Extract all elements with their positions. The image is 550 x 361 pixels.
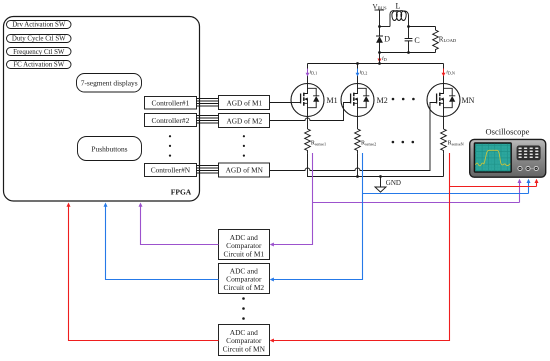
wire M1 source to Rsense1 xyxy=(307,117,309,130)
wire Rsense2 bottom to ground rail xyxy=(357,154,359,177)
current arrow iDN xyxy=(442,69,455,77)
svg-text:iD,1: iD,1 xyxy=(310,70,318,77)
svg-text:Frequency Ctl SW: Frequency Ctl SW xyxy=(13,49,65,56)
block AGD of M1 xyxy=(219,96,270,110)
wire AGDN gate to MN (hops over Rsense leads) xyxy=(270,105,431,170)
wire M2 source to Rsense2 xyxy=(357,117,359,130)
arrow blue into FPGA xyxy=(104,203,108,207)
inductor L xyxy=(390,2,409,27)
arrow red into ADC MN xyxy=(270,339,274,343)
supply VBUS xyxy=(373,3,387,27)
svg-text:M1: M1 xyxy=(327,96,338,105)
block ADC of MN xyxy=(219,325,270,356)
svg-text:Controller#N: Controller#N xyxy=(151,166,191,175)
arrow purple into FPGA xyxy=(139,203,143,207)
transistor MN xyxy=(427,84,475,117)
arrow red into scope xyxy=(535,179,539,183)
svg-text:FPGA: FPGA xyxy=(171,188,192,197)
node Vbus junction xyxy=(378,25,381,28)
svg-text:Drv Activation SW: Drv Activation SW xyxy=(12,22,66,29)
svg-text:iD: iD xyxy=(382,56,387,62)
wire AGD1 gate to M1 xyxy=(270,102,292,104)
arrow red into FPGA xyxy=(67,203,71,207)
block ADC of M1 xyxy=(219,230,270,260)
wire purple sense tap M1 xyxy=(271,153,520,245)
arrow blue into scope xyxy=(527,179,531,183)
svg-text:FC Activation SW: FC Activation SW xyxy=(13,62,64,69)
capacitor C xyxy=(405,27,420,53)
node diode bottom junction xyxy=(378,51,381,54)
svg-text:D: D xyxy=(384,35,390,44)
svg-text:MN: MN xyxy=(462,96,475,105)
arrow blue into ADC M2 xyxy=(270,278,274,282)
node inductor-capacitor junction xyxy=(407,25,410,28)
svg-text:Rsense1: Rsense1 xyxy=(311,140,326,146)
svg-text:AGD of M2: AGD of M2 xyxy=(226,116,262,125)
ellipsis controllers xyxy=(169,135,171,157)
wire drain bus xyxy=(308,53,444,84)
block ADC of M2 xyxy=(219,264,270,294)
node ground tap xyxy=(379,175,382,178)
wire RsenseN bottom to ground rail xyxy=(443,154,445,177)
node Rsense2 ground junction xyxy=(356,175,359,178)
arrow purple into scope xyxy=(518,179,522,183)
svg-text:AGD of MN: AGD of MN xyxy=(226,166,264,175)
wire bus Controller#N to AGDN xyxy=(197,166,219,174)
oscilloscope keypad xyxy=(517,146,541,161)
diode D xyxy=(376,27,390,53)
wire bus Controller#1 to AGD1 xyxy=(197,99,219,107)
block AGD of MN xyxy=(219,163,270,177)
svg-text:Circuit of M2: Circuit of M2 xyxy=(223,283,264,292)
svg-text:Circuit of MN: Circuit of MN xyxy=(223,345,266,354)
oscilloscope xyxy=(470,127,546,178)
node drain bus iD xyxy=(378,62,381,65)
svg-text:Pushbuttons: Pushbuttons xyxy=(91,144,127,153)
block AGD of M2 xyxy=(219,114,270,128)
current arrow iD1 xyxy=(306,69,318,77)
svg-text:Rsense2: Rsense2 xyxy=(361,140,376,146)
svg-text:AGD of M1: AGD of M1 xyxy=(226,98,262,107)
arrow purple into ADC M1 xyxy=(270,243,274,247)
wire AGD2 gate to M2 (hop over M1 source) xyxy=(270,105,344,120)
wire purple ADC M1 to FPGA xyxy=(141,205,219,245)
svg-text:iD,N: iD,N xyxy=(446,70,455,77)
svg-text:RsenseN: RsenseN xyxy=(448,140,464,146)
svg-text:Circuit of M1: Circuit of M1 xyxy=(223,250,264,259)
wire red sense tap MN xyxy=(271,153,537,341)
switch SW1 Drv Activation xyxy=(7,21,72,29)
transistor M2 xyxy=(341,84,388,117)
wire blue sense tap M2 xyxy=(271,153,529,280)
ground symbol xyxy=(375,177,401,193)
resistor RsenseN xyxy=(441,129,464,154)
resistor RLOAD xyxy=(433,27,457,53)
block Pushbuttons xyxy=(78,137,142,161)
wire red ADC MN to FPGA xyxy=(69,205,219,341)
FPGA box xyxy=(4,17,200,202)
resistor Rsense2 xyxy=(355,129,376,154)
ellipsis ADC column xyxy=(242,297,245,320)
wire Vbus node to inductor xyxy=(380,26,391,28)
svg-text:Duty Cycle Ctl SW: Duty Cycle Ctl SW xyxy=(12,36,66,43)
block Controller#1 xyxy=(145,97,197,110)
switch SW3 Frequency Ctl xyxy=(7,48,72,56)
svg-text:7-segment displays: 7-segment displays xyxy=(81,79,138,88)
ellipsis rsense row xyxy=(392,141,415,144)
svg-text:iD,2: iD,2 xyxy=(360,70,368,77)
wire blue ADC M2 to FPGA xyxy=(106,205,219,280)
svg-text:C: C xyxy=(414,36,419,45)
wire bus Controller#2 to AGD2 xyxy=(197,116,219,124)
oscilloscope waveform xyxy=(475,150,510,165)
block 7-segment displays xyxy=(77,74,142,93)
node drain bus M2 xyxy=(356,62,359,65)
oscilloscope screen grid xyxy=(475,144,510,172)
block Controller#N xyxy=(145,164,197,177)
switch SW2 Duty Cycle Ctl xyxy=(7,35,72,43)
svg-text:Controller#2: Controller#2 xyxy=(152,116,190,125)
svg-text:L: L xyxy=(396,2,401,11)
wire Rsense1 bottom to ground rail xyxy=(308,154,314,177)
current arrow iD2 xyxy=(356,69,368,77)
svg-text:M2: M2 xyxy=(377,96,388,105)
svg-text:Controller#1: Controller#1 xyxy=(152,99,190,108)
wire top rail to Rload xyxy=(409,26,436,28)
ellipsis mosfet row xyxy=(392,98,415,101)
current arrow iD xyxy=(378,54,387,63)
svg-text:GND: GND xyxy=(386,179,401,187)
ellipsis AGD column xyxy=(243,135,245,157)
wire ground rail xyxy=(313,176,444,178)
wire MN source to RsenseN xyxy=(443,117,445,130)
svg-text:Oscilloscope: Oscilloscope xyxy=(486,127,530,137)
transistor M1 xyxy=(291,84,338,117)
node capacitor bottom junction xyxy=(407,51,410,54)
block Controller#2 xyxy=(145,114,197,127)
switch SW4 FC Activation xyxy=(7,61,72,69)
oscilloscope screen xyxy=(474,142,512,173)
oscilloscope knobs xyxy=(518,166,538,170)
wire boost bottom rail xyxy=(380,52,436,54)
resistor Rsense1 xyxy=(305,129,326,154)
